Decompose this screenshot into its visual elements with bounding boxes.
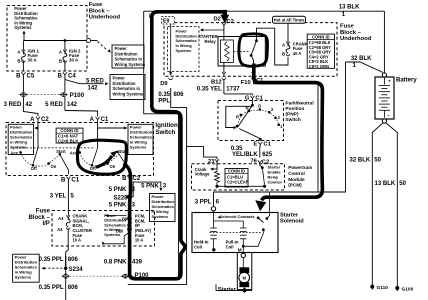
- svg-text:M: M: [242, 276, 246, 281]
- bank1 contact Start: [59, 153, 62, 156]
- wire label 0.35 PPL 806 (lower): [65, 279, 67, 300]
- svg-text:S234: S234: [69, 267, 84, 273]
- svg-text:C5: C5: [27, 74, 35, 80]
- wire 13 BLK top run (battery positive feed): [144, 10, 385, 12]
- M terminal circle: [241, 253, 245, 257]
- svg-text:3 YEL: 3 YEL: [50, 194, 67, 200]
- svg-text:Block –: Block –: [89, 8, 111, 14]
- battery negative terminal: [382, 119, 386, 123]
- svg-text:0.8 PNK: 0.8 PNK: [104, 259, 127, 265]
- wire jog to A C1: [65, 111, 98, 117]
- svg-text:13 BLK: 13 BLK: [339, 4, 360, 10]
- pull-in to M terminal and switch: [243, 232, 264, 247]
- wire 13 BLK drop to battery: [383, 11, 385, 73]
- power distribution schematics dashed box (E9 column): [168, 27, 200, 72]
- wire label 3 YEL 5: [67, 181, 69, 217]
- svg-text:0.35 YEL: 0.35 YEL: [197, 86, 222, 92]
- PNP contact arc dashed: [238, 110, 279, 126]
- svg-text:142: 142: [67, 102, 78, 108]
- PNP housing: [226, 106, 253, 127]
- hold-in coil: [213, 211, 215, 228]
- E9 column wire with down arrow: [170, 24, 172, 73]
- wire 3 PPL 6 from relay F10 to solenoid S terminal: [214, 79, 319, 206]
- svg-text:C2=6 BLK: C2=6 BLK: [58, 138, 79, 143]
- svg-text:30 A: 30 A: [28, 58, 38, 63]
- svg-text:5 PNK: 5 PNK: [109, 203, 127, 209]
- svg-text:42: 42: [25, 102, 32, 108]
- svg-text:R: R: [236, 114, 239, 119]
- arrow up to power distribution note: [23, 33, 25, 41]
- svg-text:23: 23: [208, 159, 215, 165]
- svg-text:Voltage: Voltage: [195, 172, 210, 177]
- solenoid contact switch: [257, 217, 260, 220]
- svg-text:B: B: [59, 59, 62, 64]
- PNP contact 1: [277, 124, 280, 127]
- mechanical link dashed line between switch wipers: [12, 147, 95, 149]
- PNP contact 2: [274, 117, 277, 120]
- battery cells: [379, 85, 390, 87]
- svg-text:Wiring Systems: Wiring Systems: [115, 62, 146, 67]
- svg-text:E: E: [253, 142, 257, 148]
- power distribution schematics box (S234 target): [13, 254, 40, 282]
- svg-text:439: 439: [132, 259, 143, 265]
- svg-text:5 RED: 5 RED: [45, 102, 63, 108]
- fuse block I/P dashed enclosure: [52, 211, 155, 247]
- highlight trace relay to solenoid: [254, 64, 323, 201]
- PNP input wire: [251, 99, 253, 105]
- ground G100: [395, 286, 399, 290]
- ground G110: [370, 285, 374, 289]
- wire label 5 RED 142: [64, 97, 66, 111]
- relay switch pivot: [250, 54, 253, 57]
- svg-text:B: B: [17, 59, 20, 64]
- PNP contact 3: [268, 111, 271, 114]
- wire label 0.35 YEL/BLK 625: [259, 147, 261, 158]
- bank2 contact Start: [116, 151, 119, 154]
- svg-text:Relay: Relay: [205, 39, 217, 44]
- svg-text:Systems: Systems: [130, 145, 147, 150]
- svg-text:(PCM): (PCM): [288, 183, 302, 188]
- fuse block underhood (left section) dashed enclosure: [7, 6, 87, 72]
- svg-text:Power: Power: [176, 30, 188, 34]
- svg-text:806: 806: [68, 257, 79, 263]
- relay coil top wire from D2: [223, 27, 225, 41]
- battery internal post bottom: [383, 110, 385, 117]
- fuse block underhood (right section) dashed enclosure: [164, 23, 337, 77]
- junction node IGN2 branch: [64, 39, 67, 42]
- svg-text:Systems: Systems: [14, 25, 32, 30]
- svg-text:Schematics: Schematics: [176, 39, 197, 43]
- svg-text:Coil: Coil: [226, 244, 234, 249]
- svg-text:806: 806: [68, 285, 79, 291]
- wire under highlight corner (top): [149, 14, 151, 18]
- wire bottom jog to starter: [216, 284, 237, 290]
- svg-text:+: +: [388, 79, 391, 84]
- svg-text:Powertrain: Powertrain: [288, 165, 312, 170]
- wire label 3 RED 42: [22, 97, 24, 111]
- svg-text:Switch: Switch: [285, 117, 301, 123]
- svg-text:B: B: [122, 176, 127, 182]
- bank1 contact Off: [32, 164, 35, 167]
- svg-text:Fuse: Fuse: [89, 2, 103, 8]
- svg-text:C6=2 GRN: C6=2 GRN: [309, 64, 329, 69]
- svg-text:A3: A3: [58, 216, 64, 221]
- ignition switch bank 1 wire from A C2: [37, 122, 39, 148]
- svg-text:50: 50: [399, 181, 406, 187]
- svg-text:in Wiring: in Wiring: [176, 44, 193, 48]
- starter assembly frame: [237, 253, 252, 291]
- wire C5 to P100: [22, 76, 24, 92]
- svg-text:CONN ID: CONN ID: [312, 35, 330, 40]
- inline connector P100 (S234 leg): [62, 274, 69, 279]
- battery positive cable to solenoid B: [270, 62, 346, 192]
- svg-text:10 A: 10 A: [73, 238, 82, 243]
- hot at all times tag: [273, 16, 306, 23]
- wire 0.35 PPL 806 from D9 to PCM pin 23: [171, 88, 187, 107]
- svg-text:D: D: [258, 104, 261, 109]
- inline connector P100 (left pair): [20, 92, 27, 97]
- solenoid feed tee to pull-in coil: [214, 220, 244, 222]
- ignition switch bank 2 wire from A C1: [97, 122, 99, 148]
- highlight trace ignition start blob: [78, 140, 127, 174]
- terminal circle at fuse block edge: [86, 38, 90, 42]
- solenoid mechanical link dashed: [210, 232, 262, 234]
- wire B12 to G C1: [224, 94, 253, 96]
- svg-text:D9: D9: [160, 81, 168, 87]
- svg-text:E9: E9: [163, 19, 169, 25]
- svg-text:40 A: 40 A: [293, 51, 302, 56]
- relay switch output wire through F10: [251, 55, 253, 73]
- power distribution schematics box (top right of fuse block): [112, 45, 144, 68]
- svg-text:0.35 PPL: 0.35 PPL: [39, 285, 64, 291]
- relay switch feed from CRANK fuse: [257, 28, 289, 65]
- starter solenoid box: [192, 213, 278, 253]
- svg-text:B: B: [16, 74, 21, 80]
- bank2 contact arc (dashed): [80, 152, 119, 166]
- svg-text:0.35 PPL: 0.35 PPL: [39, 257, 64, 263]
- solenoid contacts label with arrow: [218, 216, 221, 219]
- svg-text:0.35: 0.35: [231, 146, 243, 152]
- splice S228: [129, 181, 131, 217]
- svg-text:On: On: [110, 164, 116, 169]
- svg-text:3 RED: 3 RED: [4, 102, 22, 108]
- dashed arrow from S234 to power dist box: [45, 267, 63, 269]
- svg-text:0.35: 0.35: [158, 92, 170, 98]
- PNP output wire to E C1: [239, 129, 260, 141]
- PCM internal bus: [217, 185, 265, 187]
- arrow to crank voltage: [216, 163, 218, 169]
- battery internal post top: [383, 77, 385, 84]
- svg-text:D2: D2: [214, 16, 221, 22]
- bank1 contact arc (dashed): [21, 152, 60, 166]
- PNP contact D: [259, 108, 262, 111]
- relay switch link (dashed): [233, 51, 250, 53]
- svg-text:32 BLK: 32 BLK: [350, 158, 371, 164]
- bank2 contact Off: [91, 164, 94, 167]
- connector B C5: [21, 72, 25, 75]
- svg-text:P100: P100: [70, 92, 85, 99]
- svg-text:Battery: Battery: [396, 77, 417, 83]
- fuse D9/D10 PCM BCM: [128, 217, 132, 221]
- svg-text:C1: C1: [71, 177, 79, 183]
- relay switch arm: [251, 41, 256, 56]
- svg-text:B12: B12: [211, 80, 222, 86]
- wire hot feed to CRANK fuse: [287, 23, 289, 42]
- svg-text:30 A: 30 A: [69, 58, 79, 63]
- svg-text:Off: Off: [31, 166, 38, 171]
- svg-text:142: 142: [88, 85, 99, 91]
- svg-text:D10: D10: [116, 229, 124, 234]
- highlight trace main loop (ignition to relay): [124, 12, 224, 279]
- fuse IGN 1 30A: [22, 41, 24, 51]
- svg-text:3 PPL: 3 PPL: [195, 199, 212, 205]
- PNP wiper arm: [238, 105, 253, 127]
- arrow from C1 wire into right power box: [98, 127, 125, 129]
- fuse IGN 2 30A: [64, 41, 66, 51]
- PNP contact R: [240, 114, 243, 117]
- svg-text:5 RED: 5 RED: [86, 78, 104, 84]
- relay coil winding box: [220, 40, 233, 63]
- highlight arrow into relay D2: [223, 10, 227, 15]
- PCM dashed enclosure: [192, 164, 285, 190]
- svg-text:F10: F10: [241, 80, 251, 86]
- svg-text:625: 625: [262, 152, 273, 158]
- svg-text:Coil: Coil: [194, 244, 202, 249]
- solenoid S terminal circle: [211, 207, 215, 211]
- wire C4 down: [64, 76, 66, 92]
- svg-text:Module: Module: [288, 177, 305, 182]
- power distribution schematics box (ignition right): [128, 124, 153, 154]
- svg-text:C2: C2: [227, 19, 234, 25]
- svg-text:Acc: Acc: [11, 151, 19, 156]
- svg-text:Wiring Systems: Wiring Systems: [113, 91, 144, 96]
- svg-text:N: N: [246, 105, 249, 110]
- svg-text:Fuse: Fuse: [36, 209, 51, 215]
- svg-text:A4: A4: [57, 227, 63, 232]
- bank1 start to B C1 wire: [60, 154, 69, 174]
- connector D2 half-circle: [222, 23, 226, 26]
- fuse CRANK 40A: [286, 42, 290, 44]
- svg-text:Block –: Block –: [28, 215, 50, 221]
- fuse A3/A4 CRANK SIGNAL: [66, 215, 70, 217]
- svg-text:5 PNK: 5 PNK: [141, 183, 159, 189]
- relay coil bottom wire to B12: [223, 63, 225, 73]
- inline connector P100 (main leg): [122, 274, 129, 279]
- svg-text:(PNP): (PNP): [285, 111, 298, 117]
- svg-text:Underhood: Underhood: [89, 15, 121, 21]
- arrow from D9 into I/P power note: [108, 215, 127, 217]
- bank2 contact On: [106, 162, 109, 165]
- svg-text:Fuse: Fuse: [340, 24, 354, 30]
- highlight arrow into solenoid contacts: [255, 200, 266, 211]
- wire label 0.35 YEL 1737: [223, 79, 225, 94]
- svg-text:Off: Off: [90, 166, 97, 171]
- pull-in coil bars: [240, 227, 247, 229]
- svg-text:1737: 1737: [226, 86, 240, 92]
- svg-text:Systems: Systems: [15, 275, 32, 280]
- highlight blob around relay switch: [239, 34, 268, 66]
- svg-text:Control: Control: [288, 171, 305, 176]
- branch wire 5 RED 142 to power distribution box: [65, 80, 104, 84]
- wire return contour right of highlight: [128, 107, 187, 284]
- starter motor: [242, 258, 244, 268]
- svg-text:M: M: [238, 248, 242, 253]
- svg-text:Solenoid Contacts: Solenoid Contacts: [220, 214, 256, 219]
- svg-text:Park/Neutral: Park/Neutral: [285, 101, 313, 107]
- svg-text:G100: G100: [402, 286, 414, 292]
- bank1 contact On: [47, 162, 50, 165]
- svg-text:YEL/BLK: YEL/BLK: [232, 152, 258, 158]
- PNP switch dashed enclosure: [218, 101, 284, 141]
- connector E9 label box: [162, 17, 175, 25]
- svg-text:Position: Position: [285, 106, 304, 112]
- svg-text:Solenoid: Solenoid: [280, 218, 304, 224]
- svg-text:B: B: [58, 74, 63, 80]
- svg-text:C2: C2: [133, 176, 141, 182]
- svg-text:10 A: 10 A: [135, 238, 144, 243]
- starter ground stud: [242, 288, 246, 292]
- power distribution schematics box (ignition left): [8, 124, 33, 154]
- svg-text:P: P: [233, 126, 236, 131]
- svg-text:I/P: I/P: [42, 221, 49, 227]
- svg-text:G110: G110: [377, 285, 389, 291]
- svg-text:13 BLK: 13 BLK: [375, 181, 396, 187]
- wire branch to PCM 23: [187, 147, 217, 160]
- highlight arrow to Start contact: [96, 156, 112, 167]
- bank2 contact Acc: [78, 151, 81, 154]
- bus wire inside fuse block: [24, 40, 87, 42]
- svg-text:PPL: PPL: [158, 99, 170, 105]
- power distribution schematics box (5 PNK target): [150, 194, 176, 222]
- svg-text:32 BLK: 32 BLK: [351, 56, 372, 62]
- branch 5 PNK 3 arrow to power dist box: [130, 182, 161, 197]
- CONN ID table (underhood): [307, 34, 334, 68]
- svg-text:Start: Start: [56, 149, 66, 154]
- relay switch fixed contact: [255, 39, 258, 42]
- svg-text:CONN ID: CONN ID: [60, 128, 78, 133]
- PCM internal node dots: [215, 185, 218, 188]
- svg-text:5 PNK: 5 PNK: [109, 187, 127, 193]
- ignition switch dashed enclosure: [6, 123, 154, 176]
- wire label 0.35 PPL 806 (upper): [65, 256, 67, 266]
- splice S234: [65, 256, 67, 274]
- svg-text:50: 50: [374, 158, 381, 164]
- PNP contact N: [248, 110, 251, 113]
- bank2 start to B C2 wire: [117, 152, 129, 175]
- svg-text:S228: S228: [114, 195, 129, 201]
- wire 0.8 PNK riser outer contour: [144, 11, 179, 277]
- svg-text:Switch: Switch: [155, 129, 175, 136]
- svg-text:C4: C4: [68, 74, 76, 80]
- svg-text:C2=CLEAR: C2=CLEAR: [227, 180, 249, 185]
- svg-text:D9: D9: [122, 216, 128, 221]
- connector B C4: [63, 72, 67, 75]
- wire A4 to S234: [66, 229, 69, 267]
- wire jog to A C2: [23, 111, 38, 117]
- arrow from C2 wire into left power box: [37, 127, 39, 129]
- svg-text:–: –: [388, 113, 391, 118]
- svg-text:Systems: Systems: [176, 49, 192, 53]
- battery positive terminal: [382, 73, 386, 77]
- svg-text:Underhood: Underhood: [340, 36, 372, 42]
- arrow from D2 wire into power distribution note: [202, 29, 224, 31]
- hold-in coil bars: [210, 227, 217, 229]
- svg-text:Systems: Systems: [10, 145, 27, 150]
- wire 32 BLK to battery positive: [346, 62, 384, 73]
- bank1 wiper arm: [33, 148, 38, 164]
- branch D10 to power note (up arrow): [105, 232, 130, 244]
- svg-text:Control: Control: [268, 179, 282, 184]
- svg-text:Hot at All Times: Hot at All Times: [274, 17, 305, 22]
- P100 dashed link to right: [69, 275, 121, 277]
- CONN ID box (ignition): [56, 128, 83, 143]
- bank2 wiper arm: [92, 148, 97, 164]
- svg-text:B: B: [282, 51, 285, 56]
- battery negative split cables: [372, 123, 383, 286]
- svg-text:On: On: [51, 164, 57, 169]
- battery: [375, 77, 394, 119]
- svg-text:C1: C1: [263, 142, 271, 148]
- bank1 contact Acc: [19, 151, 22, 154]
- starter relay box: [218, 37, 265, 67]
- svg-text:Block –: Block –: [340, 30, 362, 36]
- svg-text:CONN ID: CONN ID: [228, 168, 245, 173]
- svg-text:806: 806: [174, 92, 185, 98]
- PNP contact P: [236, 125, 239, 128]
- PCM starter enable switch: [259, 163, 261, 165]
- battery cable drop to solenoid B terminal: [269, 192, 271, 213]
- svg-text:B: B: [61, 177, 66, 183]
- svg-text:Distribution: Distribution: [176, 34, 198, 38]
- relay coil zigzag: [225, 42, 230, 62]
- dashed arrow to power distribution note box: [98, 42, 108, 51]
- power distribution schematics box (5 RED target): [110, 75, 145, 100]
- svg-text:Starter: Starter: [218, 287, 237, 293]
- PCM pull-up resistor: [215, 169, 220, 186]
- CONN ID box (PCM): [225, 169, 248, 188]
